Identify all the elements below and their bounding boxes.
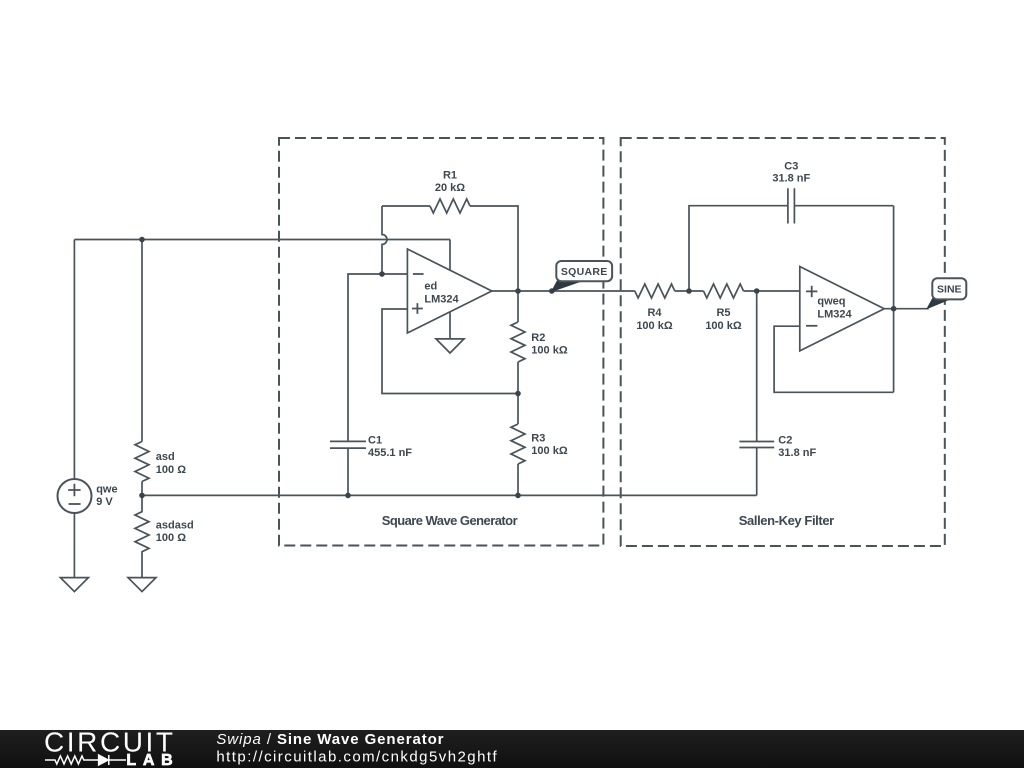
node R2/R3 junction xyxy=(515,391,521,397)
wire R3 bottom leg xyxy=(517,464,519,495)
svg-text:SINE: SINE xyxy=(937,284,962,296)
svg-text:100 kΩ: 100 kΩ xyxy=(636,320,673,332)
svg-text:100 Ω: 100 Ω xyxy=(156,532,186,544)
svg-text:R3: R3 xyxy=(531,432,545,444)
capacitor C3 xyxy=(788,188,795,223)
svg-text:R1: R1 xyxy=(443,170,457,182)
capacitor C1 xyxy=(330,441,366,448)
node asd/asdasd junction xyxy=(139,493,145,499)
footer bar xyxy=(0,730,1024,768)
wire R5 to U2 xyxy=(744,290,800,292)
wire plus input U1 xyxy=(382,309,518,394)
logo squiggle resistor and diode xyxy=(45,755,126,765)
wire U2 feedback xyxy=(774,326,894,392)
resistor R3 xyxy=(511,424,525,464)
svg-text:C2: C2 xyxy=(778,435,792,447)
wire C2 top leg xyxy=(756,291,758,442)
ground asdasd xyxy=(128,578,156,592)
svg-text:C1: C1 xyxy=(368,434,382,446)
wire minus input U1 xyxy=(382,273,407,275)
wire C1 bottom xyxy=(347,448,349,495)
node R5/C2 junction xyxy=(754,288,760,294)
ground U1 xyxy=(436,339,464,353)
svg-text:100 kΩ: 100 kΩ xyxy=(531,345,568,357)
wire R3 top leg xyxy=(517,394,519,425)
wire R4 to R5 xyxy=(675,290,704,292)
svg-text:SQUARE: SQUARE xyxy=(561,266,608,278)
U2 minus glyph xyxy=(806,325,817,327)
svg-text:R2: R2 xyxy=(531,332,545,344)
node U1 output junction xyxy=(515,288,521,294)
svg-text:LAB: LAB xyxy=(126,752,172,768)
dashed box Sallen-Key Filter xyxy=(621,138,945,546)
resistor R4 xyxy=(635,284,675,298)
svg-text:Square Wave Generator: Square Wave Generator xyxy=(382,513,518,528)
U1 minus glyph xyxy=(413,273,424,275)
svg-text:R4: R4 xyxy=(647,307,662,319)
svg-text:100 kΩ: 100 kΩ xyxy=(531,445,568,457)
svg-text:100 kΩ: 100 kΩ xyxy=(705,320,742,332)
wire R2 top leg xyxy=(517,291,519,322)
svg-text:31.8 nF: 31.8 nF xyxy=(772,173,810,185)
svg-text:C3: C3 xyxy=(784,161,798,173)
node R3 bottom junction xyxy=(515,493,521,499)
node U2 output junction xyxy=(891,306,897,312)
voltage source qwe xyxy=(58,479,92,513)
wire C3 left branch xyxy=(689,206,788,291)
wire C3 right branch xyxy=(794,205,893,207)
wire C3/feedback vertical xyxy=(893,206,895,393)
wire U1 output xyxy=(492,290,635,292)
resistor R5 xyxy=(704,284,744,298)
flag SQUARE xyxy=(552,261,612,291)
wire asd bottom xyxy=(141,482,143,496)
flag SINE xyxy=(927,278,966,308)
node minus junction xyxy=(379,271,385,277)
qwe plus glyph xyxy=(68,484,80,496)
svg-text:100 Ω: 100 Ω xyxy=(156,464,186,476)
resistor asd xyxy=(135,442,149,482)
svg-text:asd: asd xyxy=(156,451,175,463)
svg-text:qwe: qwe xyxy=(96,484,117,496)
capacitor C2 xyxy=(739,442,774,448)
wire bottom rail xyxy=(142,494,757,496)
wire R1 top right xyxy=(470,206,518,291)
svg-text:LM324: LM324 xyxy=(817,309,852,321)
svg-text:Sallen-Key Filter: Sallen-Key Filter xyxy=(739,513,834,528)
svg-text:9 V: 9 V xyxy=(96,496,113,508)
qwe minus glyph xyxy=(69,503,81,505)
wire R2 bottom leg xyxy=(517,362,519,394)
wire left leg to source xyxy=(73,240,75,480)
node SQUARE tap xyxy=(549,288,555,294)
wire R1 left leg with hop xyxy=(382,206,387,274)
svg-text:qweq: qweq xyxy=(817,296,845,308)
wire C1 branch xyxy=(348,274,382,441)
resistor R2 xyxy=(511,322,525,362)
svg-text:asdasd: asdasd xyxy=(156,520,194,532)
op-amp U2 xyxy=(800,267,884,351)
svg-text:455.1 nF: 455.1 nF xyxy=(368,447,412,459)
resistor asdasd xyxy=(135,495,149,577)
node junction main/asd xyxy=(139,237,145,243)
wire main top rail xyxy=(74,239,450,241)
wire source bottom xyxy=(73,513,75,578)
svg-text:ed: ed xyxy=(424,280,437,292)
U1 V- pin xyxy=(449,312,451,339)
wire asd top leg xyxy=(141,240,143,442)
U1 V+ pin xyxy=(449,240,451,271)
ground qwe xyxy=(60,578,88,592)
svg-text:LM324: LM324 xyxy=(424,293,459,305)
U2 plus glyph xyxy=(806,286,817,297)
svg-text:R5: R5 xyxy=(716,307,730,319)
svg-text:Swipa / Sine Wave Generator: Swipa / Sine Wave Generator xyxy=(216,731,444,748)
op-amp U1 xyxy=(407,249,491,333)
node C1 bottom junction xyxy=(345,493,351,499)
dashed box Square Wave Generator xyxy=(279,138,603,546)
wire U2 output xyxy=(884,308,929,310)
svg-text:20 kΩ: 20 kΩ xyxy=(435,182,465,194)
svg-text:31.8 nF: 31.8 nF xyxy=(778,447,816,459)
node R4/R5/C3 junction xyxy=(686,288,692,294)
wire C2 bottom leg xyxy=(756,448,758,496)
resistor R1 xyxy=(430,199,470,213)
U1 plus glyph xyxy=(412,303,423,314)
wire R1 top left xyxy=(382,205,430,207)
svg-text:http://circuitlab.com/cnkdg5vh: http://circuitlab.com/cnkdg5vh2ghtf xyxy=(216,749,498,766)
